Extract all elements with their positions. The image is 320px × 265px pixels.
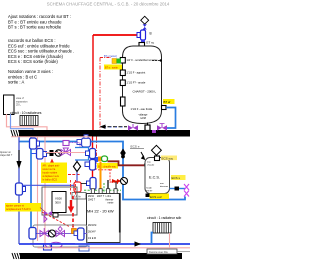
BT ef label	[163, 99, 175, 104]
red arrow down big	[68, 200, 74, 213]
svg-text:chaude: chaude	[147, 164, 155, 166]
svg-text:froide: froide	[146, 187, 152, 190]
link to F2	[31, 153, 37, 155]
svg-text:ECS e: ECS e	[131, 145, 140, 149]
maroon pipe to ECS	[108, 161, 146, 165]
svg-text:E.C.S.: E.C.S.	[149, 176, 160, 180]
fitting on dark blue riser	[16, 183, 26, 195]
svg-text:entrées : B et C: entrées : B et C	[8, 74, 37, 79]
ECS e label	[130, 145, 144, 149]
svg-text:Notation vanne 3 voies :: Notation vanne 3 voies :	[8, 69, 53, 74]
fitting B2	[85, 160, 96, 171]
cold feed pipe blue	[165, 108, 176, 129]
svg-text:26/34 M: 26/34 M	[88, 225, 96, 227]
blue box 2	[79, 246, 89, 251]
boiler port stubs	[91, 189, 117, 194]
pipe blue vase return	[11, 114, 34, 131]
riser cyan	[30, 137, 32, 237]
ECS top cap	[155, 156, 160, 161]
ECS safety diamond	[151, 145, 161, 155]
VS outer box	[42, 187, 77, 215]
svg-text:B: B	[150, 32, 152, 36]
red dashed pair	[71, 180, 76, 196]
check valve diamond	[73, 160, 80, 182]
svg-text:1'1/2 F - eau froide: 1'1/2 F - eau froide	[131, 107, 153, 111]
svg-text:metre: metre	[108, 202, 115, 205]
TA box	[72, 193, 86, 200]
svg-text:clapet AR ?: clapet AR ?	[0, 154, 13, 157]
pink crossbar 2	[45, 152, 89, 154]
svg-text:CHAROT - 2000 L: CHAROT - 2000 L	[133, 89, 157, 93]
tank left port 2	[120, 70, 125, 76]
tank valve right purple	[157, 124, 167, 131]
svg-text:2007 T: 2007 T	[97, 196, 105, 198]
pink bottom line	[38, 247, 191, 249]
black arrow into ECS	[141, 155, 146, 160]
safety valve diamond	[141, 16, 149, 29]
pink crossbar	[11, 136, 92, 138]
flow arrow right	[135, 241, 142, 246]
svg-text:dessous: dessous	[160, 186, 169, 188]
blue feed line	[23, 184, 75, 186]
radiator riser pink	[169, 233, 171, 248]
motor valve black	[47, 150, 62, 156]
red fitting	[74, 182, 87, 192]
radiator R1	[20, 116, 38, 126]
svg-text:ECS euf: ECS euf	[150, 195, 162, 199]
ECS loop blue	[19, 142, 185, 200]
svg-text:ECS s : ECS sortie (froide): ECS s : ECS sortie (froide)	[8, 59, 58, 64]
svg-text:circuit : 1 radiateur sdb: circuit : 1 radiateur sdb	[147, 216, 181, 220]
riser pink	[37, 137, 39, 242]
floor bar lower	[12, 253, 182, 259]
svg-text:circuit : 10 radiateurs: circuit : 10 radiateurs	[10, 111, 42, 115]
vidange label	[139, 113, 148, 120]
fitting F2	[37, 149, 47, 160]
pump P1 on loop	[77, 135, 91, 147]
svg-text:BT ef: BT ef	[164, 100, 171, 104]
svg-text:BT e : BT entrée eau chaude: BT e : BT entrée eau chaude	[8, 19, 62, 24]
tank left port 4	[121, 97, 126, 106]
flow arrow down	[16, 150, 21, 169]
svg-text:1/2' F - sonde/thermomètre: 1/2' F - sonde/thermomètre	[127, 58, 159, 62]
svg-text:BT s (retour): BT s (retour)	[104, 55, 117, 58]
ECS right pipe	[170, 188, 186, 190]
drain port	[145, 123, 150, 131]
svg-text:t.chm: t.chm	[106, 195, 112, 198]
red dash-dot return	[99, 58, 101, 131]
svg-text:remplacement T-S-W C: remplacement T-S-W C	[6, 208, 31, 211]
svg-text:GT sc: GT sc	[146, 41, 155, 45]
svg-text:26/34: 26/34	[88, 196, 94, 198]
svg-text:1'1/2 F? - anode: 1'1/2 F? - anode	[127, 81, 146, 85]
watermark box	[147, 249, 190, 254]
drain arrow under tank	[100, 125, 128, 129]
BT right port	[162, 106, 167, 110]
BT s marker cluster	[100, 55, 122, 70]
ECS tank texts	[146, 162, 169, 193]
orange sensor line	[100, 162, 102, 194]
ECS suc label	[161, 156, 177, 161]
svg-text:le ballon ECS: le ballon ECS	[43, 179, 58, 182]
ECS inlet port	[144, 162, 149, 167]
svg-text:1'1/2 F - appoint: 1'1/2 F - appoint	[127, 71, 146, 75]
riser dark blue	[18, 137, 20, 245]
svg-text:1/2M: 1/2M	[140, 117, 146, 120]
isolation valve blue	[137, 30, 146, 43]
red dashed relocation mark	[110, 169, 118, 184]
floor bar upper	[11, 130, 190, 137]
red riser	[92, 35, 94, 130]
svg-text:therma-: therma-	[106, 198, 114, 201]
purple mark on bar	[152, 130, 156, 133]
ECS s label	[171, 175, 186, 180]
check tick	[175, 187, 180, 191]
svg-text:sortie : A: sortie : A	[8, 80, 24, 85]
note block vanne 3 voies	[8, 69, 53, 85]
svg-text:ECS euf : entrée utilisateur f: ECS euf : entrée utilisateur froide	[8, 43, 70, 48]
fitting B1	[86, 149, 96, 159]
three-way valve V3V	[61, 141, 80, 156]
note block BT	[8, 14, 71, 30]
pipe pink vase feed	[7, 114, 48, 131]
svg-text:raccords sur ballon ECS :: raccords sur ballon ECS :	[8, 38, 55, 43]
red dashed drop	[72, 196, 74, 228]
note block ECS	[8, 38, 74, 64]
svg-text:3042 T: 3042 T	[88, 199, 96, 201]
note pointer red	[40, 208, 47, 214]
riser pink2	[44, 137, 46, 244]
fitting B3 boiler port	[87, 178, 97, 194]
svg-text:26/34 F: 26/34 F	[88, 232, 96, 234]
svg-text:ECS suc : sortie utilisateur c: ECS suc : sortie utilisateur chaude .	[8, 49, 74, 54]
ECS right valve purple	[184, 184, 189, 197]
buffer tank BT	[123, 46, 162, 124]
radiator R2	[153, 223, 171, 234]
blue small box	[44, 244, 52, 250]
svg-text:ECS e : ECS entrée (chaude): ECS e : ECS entrée (chaude)	[8, 54, 64, 59]
tank internal labels	[127, 58, 159, 85]
tank left port 3	[120, 80, 125, 86]
pump group box	[33, 225, 87, 247]
main return blue bottom	[19, 243, 190, 245]
boiler	[87, 194, 121, 243]
pump group row	[29, 227, 87, 241]
mixing cluster	[95, 156, 119, 170]
green dashed wire	[84, 189, 121, 191]
svg-text:ECS suc: ECS suc	[162, 157, 174, 161]
VS tank	[52, 192, 66, 213]
red dashdot stub	[68, 174, 80, 176]
svg-text:ECS s: ECS s	[172, 176, 181, 180]
purple bits under VS	[44, 211, 58, 222]
red up arrow	[50, 159, 55, 173]
boiler top labels	[88, 195, 114, 205]
red supply pipe top	[93, 34, 138, 36]
blue pipe box	[75, 148, 89, 161]
expansion vessel	[4, 95, 29, 115]
ECS euf label	[146, 194, 170, 200]
radiator riser blue	[152, 233, 154, 245]
yellow note mid	[41, 163, 67, 184]
svg-text:SCHEMA CHAUFFAGE CENTRAL - S.C: SCHEMA CHAUFFAGE CENTRAL - S.C.B. - 20 d…	[47, 2, 170, 7]
tank valve left purple	[128, 124, 138, 131]
red dashed diagonal	[42, 212, 70, 227]
purple drain line	[30, 242, 75, 248]
sonde pointer	[152, 59, 162, 61]
svg-text:BT s : BT sortie eau refroidie: BT s : BT sortie eau refroidie	[8, 25, 62, 30]
boiler bottom labels	[88, 225, 96, 240]
yellow note left	[5, 203, 41, 212]
ECS tank	[145, 158, 170, 194]
svg-text:EN 97: EN 97	[146, 190, 153, 192]
gray pipes boiler top	[107, 180, 109, 194]
svg-text:BT s : sortie: BT s : sortie	[105, 67, 118, 70]
svg-text:1/2 E M: 1/2 E M	[88, 238, 96, 240]
svg-text:Dessiné avec Dia: Dessiné avec Dia	[149, 251, 168, 254]
fitting F1	[30, 138, 40, 149]
svg-text:300 l: 300 l	[55, 201, 61, 205]
tank top port	[136, 43, 145, 58]
red arrows boiler	[112, 179, 122, 183]
svg-text:25 L: 25 L	[16, 104, 21, 107]
clapet note	[0, 151, 13, 157]
tank left port 1	[120, 58, 125, 64]
svg-text:MH 22 - 20 kW: MH 22 - 20 kW	[87, 209, 114, 214]
svg-text:Ajout notations : raccords sur: Ajout notations : raccords sur BT :	[8, 14, 71, 19]
check valve on ECS riser	[120, 149, 126, 158]
